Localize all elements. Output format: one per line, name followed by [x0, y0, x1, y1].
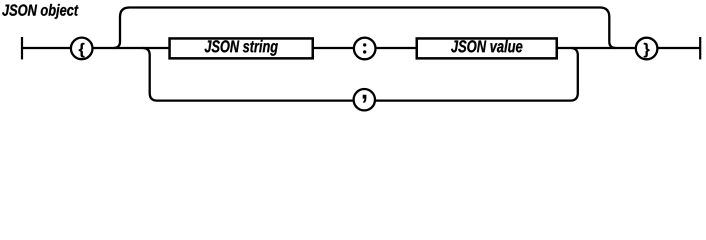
wire: start to { [22, 47, 71, 49]
start terminal [21, 37, 23, 59]
box: JSON value [417, 38, 557, 58]
box: JSON string [170, 38, 313, 58]
wire: comma loop left descent [143, 48, 354, 101]
wire: JSON string to : [313, 47, 354, 49]
wire: JSON value to } [557, 47, 636, 49]
wire: : to JSON value box [376, 47, 418, 49]
wire: bypass loop (empty object path, over the top) [114, 8, 616, 49]
wire: comma loop right ascent [375, 48, 578, 101]
wire: } to end terminal [657, 47, 700, 49]
terminal circle } [636, 38, 658, 60]
terminal circle { [71, 38, 93, 60]
terminal circle , (comma) [354, 89, 375, 110]
end terminal [699, 37, 701, 59]
wire: { to JSON string box [93, 47, 171, 49]
title: JSON object [2, 4, 78, 19]
terminal circle : (colon) [354, 38, 376, 60]
